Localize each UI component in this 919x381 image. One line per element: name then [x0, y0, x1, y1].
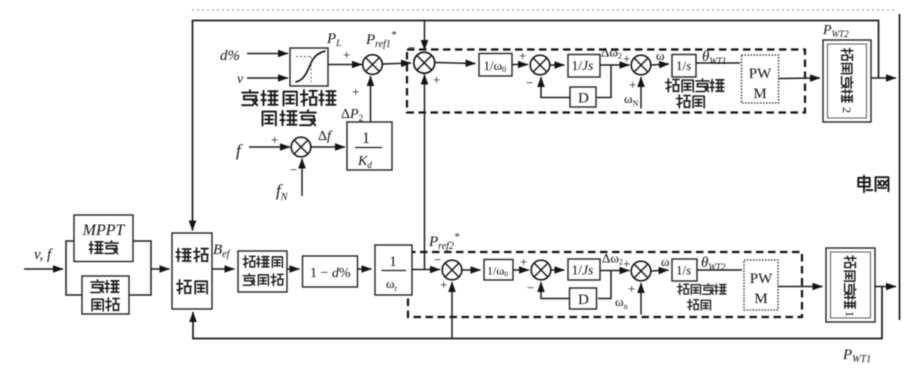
wire J7 to 1/Js bottom: [552, 269, 565, 271]
label 控制 top: [677, 95, 705, 108]
svg-text:+: +: [519, 48, 526, 63]
label 电网: [858, 176, 888, 193]
svg-text:M: M: [754, 291, 767, 307]
wire J1 to J2: [383, 63, 412, 64]
svg-text:PW: PW: [750, 271, 773, 287]
wire 1/w0 to J7: [513, 269, 529, 271]
svg-text:v, f: v, f: [34, 247, 53, 263]
svg-text:+: +: [440, 277, 447, 292]
summing junction J4: [530, 55, 550, 75]
svg-text:+: +: [629, 77, 636, 92]
svg-text:M: M: [753, 86, 766, 102]
svg-text:v: v: [237, 72, 244, 87]
block 1/w0 top: [479, 54, 512, 77]
wire D to J4 bottom: [541, 77, 570, 98]
wire PWM to turbine1: [778, 286, 823, 288]
wire input split bracket: [66, 241, 82, 295]
block 1/s bottom: [672, 259, 697, 281]
block 1/Kd: [347, 122, 392, 170]
summing junction J6: [442, 260, 462, 280]
wire branch down into summing junction J2 top: [424, 21, 426, 51]
wire J3 to 1/Kd: [312, 146, 346, 148]
wire D to J7 bottom: [541, 282, 570, 299]
block MPPT 跟踪: [74, 215, 133, 262]
svg-text:+: +: [623, 51, 630, 66]
wire J8 to 1/s bottom: [652, 270, 669, 271]
wire w_n up into J8: [640, 283, 642, 315]
block 1/Js top: [568, 55, 600, 78]
block 1/Js bottom: [568, 259, 600, 280]
block 1-d%: [303, 256, 358, 287]
wire mode switch to power limiter: [212, 268, 235, 270]
summing junction J7: [531, 260, 551, 280]
wire P_WT2 feedback top: from tap to mode-switch block: [193, 21, 879, 231]
summing junction J2 (big): [414, 52, 435, 73]
block PWM bottom: [744, 260, 778, 310]
wire turbine1 to grid bus: [875, 286, 896, 288]
wire v arrow: [247, 77, 288, 79]
label 控制 bottom: [688, 299, 711, 310]
svg-text:1/Js: 1/Js: [572, 58, 594, 73]
wire 1/s to PWM bottom: [697, 269, 742, 271]
svg-text:1/s: 1/s: [676, 58, 691, 73]
wire merge to mode switch: [151, 268, 170, 270]
wire J2 to 1/w0: [435, 63, 476, 64]
block mode switch 模式切换: [172, 233, 212, 309]
wire PWM to turbine2: [779, 77, 821, 80]
wire v,f input arrow: [24, 268, 63, 270]
wire output merge bracket: [129, 241, 151, 295]
svg-text:+: +: [271, 132, 278, 147]
grid bus line: [899, 14, 901, 320]
svg-text:+: +: [628, 281, 635, 296]
svg-text:1/Js: 1/Js: [572, 263, 594, 278]
svg-text:+: +: [352, 84, 359, 99]
svg-text:D: D: [578, 292, 589, 308]
wire 1/w0 to J4: [512, 64, 528, 66]
block wind turbine 2: [823, 40, 871, 122]
dashed box VSM control top: [407, 50, 805, 113]
svg-text:+: +: [623, 256, 630, 271]
wire curve block to J1: [329, 64, 363, 66]
label VSM control top 虚拟同步: [666, 79, 724, 92]
wire f_N up into J3: [301, 159, 303, 197]
block D top: [570, 87, 596, 107]
block PWM top: [742, 55, 779, 103]
wire f to J3: [249, 146, 290, 148]
svg-text:D: D: [578, 91, 589, 107]
svg-text:−: −: [408, 40, 415, 55]
block 1/wr fraction: [375, 245, 412, 295]
svg-text:2: 2: [840, 107, 854, 113]
wire 1/Js to J5 with D tap: [600, 64, 630, 66]
svg-text:Δf: Δf: [318, 129, 333, 144]
block deload tracking curve: [290, 48, 328, 86]
svg-text:−: −: [290, 162, 297, 177]
svg-text:1: 1: [389, 254, 397, 270]
svg-text:−: −: [434, 252, 441, 267]
label caption 踪曲线: [263, 110, 316, 125]
svg-text:ω: ω: [661, 254, 670, 269]
block 1/w0 bottom: [484, 260, 513, 281]
wire 1-d% to 1/wr: [358, 268, 372, 270]
svg-text:PW: PW: [749, 66, 772, 82]
svg-text:1/s: 1/s: [676, 263, 691, 278]
svg-text:+: +: [433, 72, 440, 87]
wire 1/s to PWM: [697, 62, 741, 64]
wire J5 to 1/s: [652, 64, 670, 65]
scan artifact dotted top line: [192, 9, 897, 11]
svg-text:−: −: [527, 280, 534, 295]
wire limiter to 1-d%: [287, 268, 300, 270]
svg-text:1: 1: [843, 311, 857, 317]
summing junction J3: [291, 137, 311, 157]
svg-text:1 − d%: 1 − d%: [310, 266, 351, 281]
wire J6 to 1/w0 bottom: [463, 269, 481, 271]
block 减载运行: [82, 276, 129, 314]
svg-text:MPPT: MPPT: [82, 222, 126, 239]
block D bottom: [570, 288, 597, 309]
wire dP2 vertical from 1/Kd to J1: [370, 76, 372, 122]
wire wN up into J5: [640, 77, 642, 109]
svg-text:ω: ω: [656, 48, 665, 63]
wire J4 to 1/Js: [551, 64, 565, 66]
wire long vertical branch up to J2 bottom: [424, 75, 426, 270]
wire feedback up into J6: [451, 282, 453, 338]
wire 1/Js to J8 with tap: [600, 270, 630, 272]
svg-text:+: +: [343, 47, 350, 62]
wire 1/wr to J6: [413, 269, 441, 271]
wire P_WT1 feedback: tap down, long line left, up into mode switch: [193, 287, 882, 339]
block power limiter 功率限幅环节: [238, 251, 287, 292]
svg-text:d%: d%: [220, 48, 240, 64]
wire tap down into D bottom: [598, 271, 611, 299]
block wind turbine 1: [826, 248, 875, 322]
block 1/s top: [672, 55, 696, 78]
label VSM control bottom 虚拟同步: [678, 284, 727, 295]
wire d% arrow: [247, 53, 288, 55]
summing junction J8: [631, 261, 651, 281]
svg-text:+: +: [520, 254, 527, 269]
label caption 减载运行跟: [242, 90, 335, 105]
summing junction J1: [363, 55, 383, 75]
wire turbine2 to grid bus: [871, 77, 896, 79]
svg-text:−: −: [526, 75, 533, 90]
svg-text:1: 1: [362, 130, 370, 147]
wire tap down into D: [597, 65, 611, 98]
summing junction J5: [631, 55, 651, 75]
dashed box VSM control bottom: [408, 252, 802, 317]
